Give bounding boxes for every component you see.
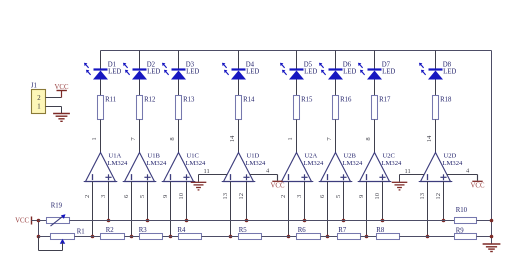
svg-text:14: 14 <box>426 135 433 142</box>
svg-text:R5: R5 <box>239 227 248 234</box>
svg-text:R9: R9 <box>456 227 465 234</box>
svg-text:R12: R12 <box>144 97 156 104</box>
svg-text:R19: R19 <box>51 202 63 209</box>
svg-text:VCC: VCC <box>271 183 285 190</box>
svg-text:U1A: U1A <box>109 153 122 160</box>
svg-text:VCC: VCC <box>15 218 29 225</box>
svg-text:U1C: U1C <box>187 153 200 160</box>
svg-text:VCC: VCC <box>471 183 485 190</box>
svg-text:1: 1 <box>91 137 98 140</box>
svg-text:R11: R11 <box>105 97 116 104</box>
svg-text:R17: R17 <box>379 97 391 104</box>
svg-text:D7: D7 <box>382 62 391 69</box>
svg-text:13: 13 <box>419 192 426 199</box>
svg-text:LED: LED <box>382 69 395 76</box>
svg-text:LED: LED <box>304 69 317 76</box>
svg-text:D4: D4 <box>246 62 255 69</box>
svg-text:R7: R7 <box>338 227 347 234</box>
svg-text:R4: R4 <box>178 227 187 234</box>
svg-text:14: 14 <box>229 135 236 142</box>
svg-text:LM324: LM324 <box>108 160 128 167</box>
svg-text:LM324: LM324 <box>246 160 266 167</box>
svg-text:12: 12 <box>238 193 245 200</box>
svg-text:R1: R1 <box>77 228 85 235</box>
svg-text:LED: LED <box>343 69 356 76</box>
svg-text:R16: R16 <box>340 97 352 104</box>
svg-text:2: 2 <box>84 195 91 198</box>
svg-text:2: 2 <box>280 195 287 198</box>
svg-text:R6: R6 <box>298 227 307 234</box>
svg-text:R8: R8 <box>376 227 385 234</box>
svg-text:VCC: VCC <box>55 84 69 91</box>
svg-text:LED: LED <box>186 69 199 76</box>
svg-text:LM324: LM324 <box>443 160 463 167</box>
svg-text:LED: LED <box>108 69 121 76</box>
svg-text:U2D: U2D <box>444 153 457 160</box>
svg-text:1: 1 <box>37 104 40 111</box>
svg-text:R18: R18 <box>440 97 452 104</box>
svg-text:R2: R2 <box>106 227 115 234</box>
svg-text:13: 13 <box>222 192 229 199</box>
svg-text:11: 11 <box>405 168 411 175</box>
svg-text:LED: LED <box>443 69 456 76</box>
svg-text:12: 12 <box>435 193 442 200</box>
svg-text:LM324: LM324 <box>186 160 206 167</box>
svg-text:D3: D3 <box>186 62 195 69</box>
svg-text:J1: J1 <box>31 83 37 90</box>
svg-text:LED: LED <box>147 69 160 76</box>
svg-text:R14: R14 <box>243 97 255 104</box>
svg-text:LM324: LM324 <box>382 160 402 167</box>
svg-text:LM324: LM324 <box>304 160 324 167</box>
svg-text:2: 2 <box>37 95 41 102</box>
svg-text:U2A: U2A <box>305 153 318 160</box>
svg-text:R15: R15 <box>301 97 313 104</box>
svg-text:U2C: U2C <box>383 153 396 160</box>
svg-text:D5: D5 <box>304 62 313 69</box>
svg-text:D8: D8 <box>443 62 452 69</box>
svg-text:R10: R10 <box>456 207 468 214</box>
svg-text:R3: R3 <box>139 227 148 234</box>
svg-text:D6: D6 <box>343 62 352 69</box>
svg-text:1: 1 <box>287 137 294 140</box>
svg-text:11: 11 <box>204 168 210 175</box>
svg-text:LM324: LM324 <box>343 160 363 167</box>
svg-text:10: 10 <box>374 192 381 199</box>
svg-text:U1B: U1B <box>148 153 161 160</box>
svg-text:U2B: U2B <box>344 153 357 160</box>
svg-text:LED: LED <box>246 69 259 76</box>
svg-text:10: 10 <box>178 192 185 199</box>
svg-text:D2: D2 <box>147 62 156 69</box>
svg-text:D1: D1 <box>108 62 116 69</box>
svg-text:R13: R13 <box>183 97 195 104</box>
svg-text:U1D: U1D <box>247 153 260 160</box>
svg-text:LM324: LM324 <box>147 160 167 167</box>
